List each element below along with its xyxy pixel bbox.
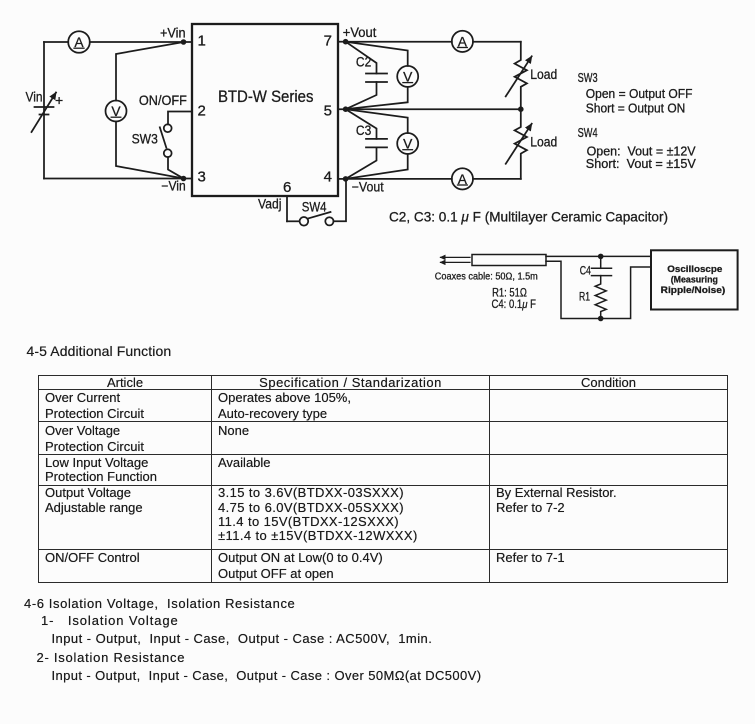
voltmeter V3 (- output voltage) <box>346 109 419 179</box>
wire: mid rail pin 5 to loads junction <box>338 108 521 110</box>
ammeter A2 (+ output current) <box>452 31 473 52</box>
svg-text:Oscilloscpe: Oscilloscpe <box>667 264 722 275</box>
svg-text:A: A <box>458 34 468 49</box>
svg-text:C2: C2 <box>356 55 371 70</box>
svg-text:V: V <box>403 137 413 152</box>
node load mid junction dot <box>518 106 524 112</box>
table: additional function <box>38 375 728 583</box>
wire: ammeter A2 to load <box>473 41 521 43</box>
svg-text:C3: C3 <box>356 123 371 138</box>
svg-text:Coaxes cable: 50Ω, 1.5m: Coaxes cable: 50Ω, 1.5m <box>435 270 538 282</box>
source Vin (variable DC source) <box>32 93 57 133</box>
switch SW3 (open) <box>160 124 172 157</box>
svg-text:(Measuring: (Measuring <box>671 275 718 286</box>
ammeter A3 (- output current) <box>452 168 473 189</box>
svg-text:ON/OFF: ON/OFF <box>139 93 187 108</box>
svg-text:Open = Output OFF: Open = Output OFF <box>586 86 693 101</box>
wire: voltmeter V1 top lead <box>116 42 184 101</box>
svg-text:−Vin: −Vin <box>161 179 185 194</box>
svg-text:SW3: SW3 <box>132 132 158 147</box>
module U1 BTD-W Series body <box>192 24 338 196</box>
svg-text:A: A <box>458 172 468 187</box>
svg-text:Short: Vout = ±15V: Short: Vout = ±15V <box>586 156 696 171</box>
svg-text:7: 7 <box>324 33 332 50</box>
coax cable body <box>472 255 546 266</box>
capacitor C3 <box>346 109 387 179</box>
svg-text:Load: Load <box>530 67 557 82</box>
wire: pin 6 stub down <box>286 196 288 221</box>
wire: coax shield return path <box>546 261 651 318</box>
svg-text:+Vout: +Vout <box>343 25 377 40</box>
svg-text:C2, C3: 0.1 μ F (Multilayer Ce: C2, C3: 0.1 μ F (Multilayer Ceramic Capa… <box>389 209 668 225</box>
wire: +Vout rail to ammeter A2 <box>346 41 452 43</box>
wire: voltmeter V1 bottom lead <box>116 122 184 179</box>
svg-text:Vadj: Vadj <box>258 196 281 211</box>
wire: pin 4 stub <box>338 178 346 180</box>
oscilloscope label <box>661 264 726 296</box>
wire: SW3 to pin 3 node <box>168 157 184 178</box>
capacitor C4 <box>592 256 612 275</box>
wire: bottom rail to pin 3 <box>44 178 192 180</box>
resistor R1 <box>595 276 606 319</box>
section 4-6 text block <box>24 596 295 611</box>
voltmeter V2 (+ output voltage) <box>346 42 419 110</box>
load RL1 (variable, + output) <box>506 42 532 110</box>
svg-text:Vin: Vin <box>26 90 43 105</box>
svg-text:2: 2 <box>198 103 206 120</box>
svg-text:R1: R1 <box>579 291 590 303</box>
capacitor C2 <box>346 42 387 110</box>
wire: SW4 to pin 4 node <box>334 179 347 221</box>
svg-text:R1: 51Ω: R1: 51Ω <box>492 287 527 299</box>
node C4 top junction dot <box>598 254 604 260</box>
wire: ammeter A3 to load RL2 <box>473 178 521 180</box>
load RL2 (variable, - output) <box>506 109 532 179</box>
svg-text:Ripple/Noise): Ripple/Noise) <box>661 285 726 296</box>
node +Vin junction dot <box>181 39 187 45</box>
wire: pin 2 to SW3 <box>168 112 192 125</box>
svg-text:1: 1 <box>198 33 206 50</box>
svg-text:C4: C4 <box>580 266 592 278</box>
svg-text:+Vin: +Vin <box>160 26 186 41</box>
svg-text:V: V <box>111 104 121 119</box>
node +Vout junction dot <box>343 39 349 45</box>
node -Vout junction dot <box>343 176 349 182</box>
section title 4-5 <box>27 343 172 359</box>
svg-text:V: V <box>403 69 413 84</box>
svg-text:−Vout: −Vout <box>352 179 384 194</box>
svg-text:5: 5 <box>324 103 332 120</box>
svg-text:SW4: SW4 <box>578 125 598 140</box>
svg-text:4: 4 <box>324 169 332 186</box>
node R1 bottom junction dot <box>598 316 604 322</box>
oscilloscope box <box>651 250 738 309</box>
svg-text:6: 6 <box>283 179 291 196</box>
wire: left vertical (source branch) <box>43 42 45 179</box>
svg-text:C4: 0.1μ F: C4: 0.1μ F <box>492 299 536 311</box>
svg-text:Load: Load <box>530 134 557 149</box>
svg-text:3: 3 <box>198 169 206 186</box>
wire: pin 7 stub <box>338 41 346 43</box>
svg-text:Short = Output ON: Short = Output ON <box>586 101 686 116</box>
svg-text:SW4: SW4 <box>302 200 327 215</box>
svg-text:+: + <box>55 92 63 108</box>
voltmeter V1 (input voltage) <box>106 101 127 122</box>
svg-text:BTD-W Series: BTD-W Series <box>218 87 314 106</box>
wire: coax center to oscilloscope <box>546 255 651 257</box>
wire: ammeter to pin 1 <box>90 41 192 43</box>
switch SW4 (open) <box>287 212 334 226</box>
wire: -Vout rail to ammeter A3 <box>346 178 452 180</box>
svg-text:SW3: SW3 <box>578 70 598 85</box>
node pin 5 junction dot <box>343 106 349 112</box>
ammeter A1 (input current) <box>68 31 90 53</box>
node -Vin junction dot <box>181 176 187 182</box>
wire: top-left rail from source to ammeter <box>44 41 68 43</box>
svg-text:A: A <box>74 35 84 50</box>
coax cable input arrows <box>441 257 471 262</box>
